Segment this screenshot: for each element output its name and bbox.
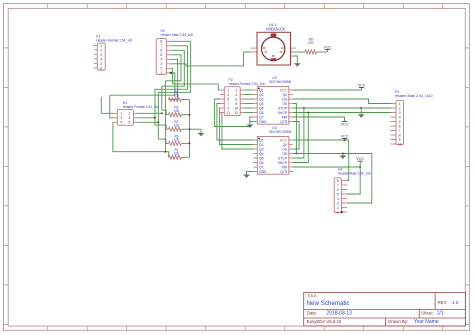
svg-text:2: 2 — [337, 206, 339, 210]
svg-text:Q4: Q4 — [259, 102, 264, 106]
svg-text:TITLE:: TITLE: — [307, 294, 317, 298]
svg-text:Header-Male 2.54_1x8: Header-Male 2.54_1x8 — [161, 33, 194, 37]
svg-text:Q2: Q2 — [259, 93, 264, 97]
svg-text:STCP: STCP — [278, 156, 288, 160]
svg-text:5: 5 — [160, 53, 162, 57]
svg-text:10k: 10k — [174, 138, 180, 142]
svg-text:7: 7 — [227, 102, 229, 106]
svg-text:6: 6 — [100, 66, 102, 70]
svg-text:2: 2 — [160, 67, 162, 71]
svg-text:Q5: Q5 — [259, 106, 264, 110]
svg-text:7: 7 — [399, 129, 401, 133]
svg-text:VCC: VCC — [324, 45, 332, 49]
svg-text:1/1: 1/1 — [437, 311, 444, 317]
svg-text:2018-08-13: 2018-08-13 — [326, 311, 352, 317]
svg-text:SN74HC595N: SN74HC595N — [269, 80, 292, 84]
svg-text:Header-Female 2.54_2x6: Header-Female 2.54_2x6 — [229, 82, 265, 86]
svg-text:VCC: VCC — [280, 138, 288, 142]
svg-text:4: 4 — [399, 115, 401, 119]
svg-text:9: 9 — [227, 106, 229, 110]
svg-text:3: 3 — [160, 62, 162, 66]
svg-text:Q2: Q2 — [259, 143, 264, 147]
svg-text:1: 1 — [160, 71, 162, 75]
svg-text:5: 5 — [120, 121, 122, 125]
svg-text:11: 11 — [227, 111, 231, 115]
svg-text:6: 6 — [160, 49, 162, 53]
svg-text:4: 4 — [160, 58, 162, 62]
svg-text:OE: OE — [282, 152, 288, 156]
svg-text:Q7S: Q7S — [280, 120, 288, 124]
svg-text:EasyEDA V5.6.15: EasyEDA V5.6.15 — [307, 319, 342, 324]
svg-text:7: 7 — [337, 183, 339, 187]
svg-text:5: 5 — [337, 192, 339, 196]
svg-text:5: 5 — [399, 120, 401, 124]
svg-text:MR: MR — [282, 165, 288, 169]
svg-text:Q7: Q7 — [259, 165, 264, 169]
svg-text:Q1: Q1 — [259, 138, 264, 142]
svg-text:DS: DS — [282, 97, 287, 101]
svg-text:5: 5 — [100, 62, 102, 66]
svg-text:MIDIJACK: MIDIJACK — [266, 26, 285, 31]
svg-text:Drawn By:: Drawn By: — [388, 319, 408, 324]
svg-text:Q0: Q0 — [283, 93, 288, 97]
svg-text:SHCP: SHCP — [278, 111, 288, 115]
svg-text:STCP: STCP — [278, 106, 288, 110]
svg-text:New Schematic: New Schematic — [307, 300, 350, 307]
svg-text:1: 1 — [399, 102, 401, 106]
svg-text:SHCP: SHCP — [278, 161, 288, 165]
svg-text:10: 10 — [398, 142, 402, 146]
svg-text:Your Name: Your Name — [414, 319, 439, 325]
svg-text:MR: MR — [282, 115, 288, 119]
svg-text:4: 4 — [337, 197, 339, 201]
svg-text:2: 2 — [129, 112, 131, 116]
svg-text:Sheet:: Sheet: — [421, 311, 434, 316]
svg-text:Q6: Q6 — [259, 161, 264, 165]
svg-text:3: 3 — [337, 201, 339, 205]
svg-text:OE: OE — [282, 102, 288, 106]
svg-text:2: 2 — [399, 106, 401, 110]
svg-text:2: 2 — [100, 48, 102, 52]
svg-text:VCC: VCC — [356, 157, 364, 161]
svg-text:1: 1 — [100, 44, 102, 48]
svg-text:Q0: Q0 — [283, 143, 288, 147]
svg-text:8: 8 — [399, 133, 401, 137]
svg-text:VCC: VCC — [341, 134, 349, 138]
svg-text:10k: 10k — [174, 109, 180, 113]
svg-text:Q3: Q3 — [259, 97, 264, 101]
svg-text:220: 220 — [308, 41, 314, 45]
svg-text:1: 1 — [227, 88, 229, 92]
svg-text:3: 3 — [399, 111, 401, 115]
svg-text:GND: GND — [259, 120, 267, 124]
svg-text:7: 7 — [160, 44, 162, 48]
svg-text:8: 8 — [337, 179, 339, 183]
svg-text:Q4: Q4 — [259, 152, 264, 156]
svg-text:Q5: Q5 — [259, 156, 264, 160]
svg-text:Header-Female 2.54_1x6: Header-Female 2.54_1x6 — [96, 38, 132, 42]
svg-text:3: 3 — [120, 116, 122, 120]
svg-text:3: 3 — [227, 93, 229, 97]
svg-text:10k: 10k — [174, 94, 180, 98]
svg-text:DS: DS — [282, 147, 287, 151]
svg-text:6: 6 — [235, 97, 237, 101]
svg-text:1: 1 — [120, 112, 122, 116]
svg-text:Q3: Q3 — [259, 147, 264, 151]
svg-text:1: 1 — [337, 210, 339, 214]
svg-text:SN74HC595N: SN74HC595N — [269, 130, 292, 134]
svg-text:VCC: VCC — [280, 88, 288, 92]
svg-text:10: 10 — [234, 106, 238, 110]
svg-text:2: 2 — [235, 88, 237, 92]
svg-text:8: 8 — [160, 40, 162, 44]
svg-text:6: 6 — [337, 188, 339, 192]
svg-text:10k: 10k — [174, 123, 180, 127]
svg-text:Q1: Q1 — [259, 88, 264, 92]
svg-text:Header-Male 2.54_1x10: Header-Male 2.54_1x10 — [395, 94, 433, 98]
svg-text:4: 4 — [100, 57, 102, 61]
svg-text:Header-Male 2.54_1x8: Header-Male 2.54_1x8 — [338, 171, 371, 175]
svg-text:Q7: Q7 — [259, 115, 264, 119]
svg-text:5: 5 — [227, 97, 229, 101]
svg-text:6: 6 — [129, 121, 131, 125]
svg-text:Date:: Date: — [307, 311, 318, 316]
svg-text:4: 4 — [235, 93, 237, 97]
svg-text:9: 9 — [399, 138, 401, 142]
svg-text:Q6: Q6 — [259, 111, 264, 115]
svg-text:1.0: 1.0 — [452, 300, 459, 305]
svg-text:VCC: VCC — [341, 122, 349, 126]
svg-text:Q7S: Q7S — [280, 170, 288, 174]
svg-text:12: 12 — [234, 111, 238, 115]
svg-text:GND: GND — [259, 170, 267, 174]
svg-text:8: 8 — [235, 102, 237, 106]
svg-text:3: 3 — [100, 53, 102, 57]
svg-text:10k: 10k — [174, 151, 180, 155]
svg-text:REV:: REV: — [438, 300, 448, 305]
svg-text:4: 4 — [129, 116, 131, 120]
svg-text:6: 6 — [399, 124, 401, 128]
svg-text:VCC: VCC — [358, 83, 366, 87]
svg-text:Header-Female 2.54_2x3: Header-Female 2.54_2x3 — [123, 105, 159, 109]
